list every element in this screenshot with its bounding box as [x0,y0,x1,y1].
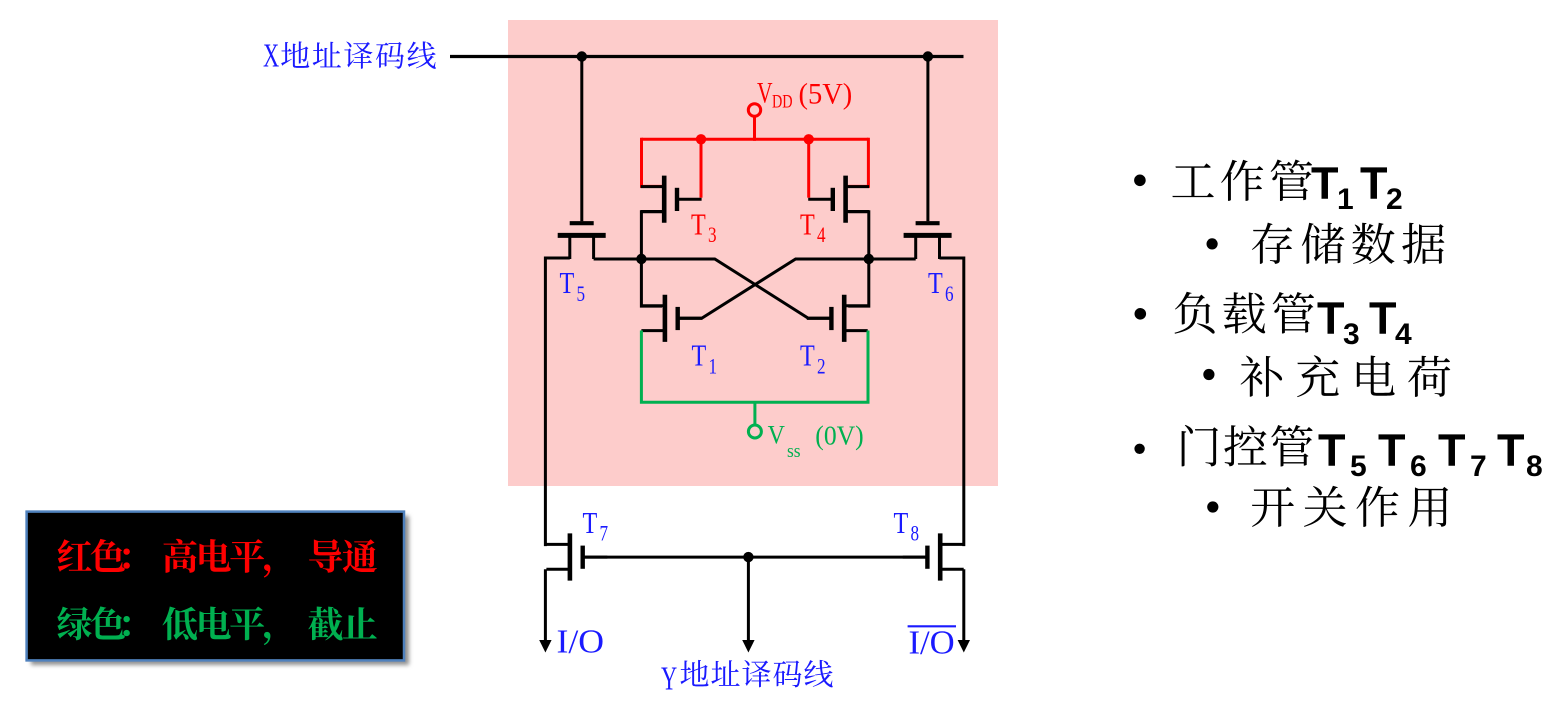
wire node B down to T2 drain [848,259,869,306]
label T2 [800,339,826,379]
wire T5 left lead down to T7 [545,258,569,546]
svg-text:T: T [1311,158,1339,209]
red junction dot above T4 gate [804,134,814,144]
transistor T5 (gate transistor, horizontal MOSFET) [558,223,606,259]
svg-text:6: 6 [945,282,954,307]
svg-text:T: T [583,506,598,541]
svg-text:T: T [894,506,909,541]
svg-text:T: T [691,208,706,243]
bullet dot 3 [1134,444,1144,454]
label I/O [557,622,605,660]
svg-text:I/O: I/O [909,624,955,662]
wire T5 gate drop [580,57,583,222]
svg-text:2: 2 [817,354,826,379]
label T3 [691,208,717,248]
label Y address decode line (Y地址译码线) [661,660,833,698]
label T4 [800,208,826,248]
node junction dot right on X line [923,51,933,61]
wire node A down to T1 drain [641,259,662,306]
svg-text:5: 5 [1350,450,1367,483]
svg-text:X: X [263,37,279,75]
transistor T4 (load MOSFET) [808,176,869,223]
label VDD (5V) [757,76,852,112]
wire VDD stub to rail [753,116,756,141]
wire T7-T8 gate row (Y select) [583,556,927,559]
label X address decode line (X地址译码线) [263,37,436,75]
svg-text:T: T [1360,158,1388,209]
label T6 [928,266,954,306]
wire red drop rail to T3 drain [642,138,663,187]
bullet dot 1 [1134,175,1146,187]
VDD terminal circle [748,104,760,116]
svg-text:5: 5 [577,282,586,307]
transistor T1 (storage MOSFET) [641,295,702,342]
wire VDD red rail [642,138,869,141]
svg-text:T: T [928,266,943,301]
svg-text:8: 8 [1526,450,1543,483]
svg-text:(0V): (0V) [815,421,863,451]
svg-text:3: 3 [708,223,717,248]
wire red drop rail to T4 drain [848,138,868,187]
wire node B up to T4 source [848,212,869,259]
list sub item 1: store data (存储数据) [1252,223,1445,264]
wire T6 right lead down to T8 [940,258,964,546]
svg-text:V: V [768,422,785,450]
svg-text:7: 7 [600,522,609,547]
sub bullet dot 2 [1203,369,1214,380]
list item 1: working transistors T1 T2 (工作管T1 T2) [1172,158,1402,216]
node B junction dot (right storage node) [864,254,874,264]
svg-text:T: T [1318,425,1346,476]
svg-text:T: T [692,339,707,374]
wire Y line down with arrow [742,557,754,652]
wire green VSS stub [753,402,756,426]
wire T7 source down with arrow (I/O) [539,569,551,652]
svg-text:V: V [757,76,773,109]
bullet dot 2 [1135,308,1147,320]
label T1 [692,339,718,379]
wire green VSS loop [641,331,868,403]
svg-text:T: T [1369,293,1397,344]
wire red drop rail to T4 gate [807,139,810,197]
list item 2: load transistors T3 T4 (负载管T3 T4) [1175,292,1412,351]
VSS terminal circle [748,425,761,438]
svg-text:1: 1 [1337,183,1354,216]
svg-text:T: T [1438,425,1466,476]
svg-text:3: 3 [1343,318,1360,351]
svg-text:Y: Y [661,660,677,698]
svg-text:6: 6 [1410,450,1427,483]
wire T5 right lead to node A [594,258,642,261]
wire T6 gate drop [926,57,929,222]
transistor T7 (column gate MOSFET) [546,533,607,580]
list sub item 2: replenish charge (补充电荷) [1241,355,1451,397]
wire red drop rail to T3 gate [700,139,703,197]
svg-text:T: T [800,339,815,374]
legend line 1: red = high level, conducting (红色：高电平，导通) [58,539,377,578]
legend box (black with blue border) [27,512,404,661]
list item 3: gate transistors T5 T6 T7 T8 (门控管T5 T6 T7 T8) [1182,425,1543,483]
label VSS (0V) [768,421,864,461]
node junction dot on Y gate row [743,552,753,562]
wire node A to T2 gate (cross-coupling diagonal) [641,259,830,318]
transistor T3 (load MOSFET) [641,176,702,223]
red junction dot above T3 gate [696,134,706,144]
sub bullet dot 3 [1207,501,1218,512]
svg-text:(5V): (5V) [799,78,853,111]
svg-text:2: 2 [1386,183,1403,216]
label T5 [560,266,586,306]
label T8 [894,506,920,546]
wire T8 source down with arrow (I/O bar) [958,569,970,652]
svg-text:T: T [1317,293,1345,344]
node A junction dot (left storage node) [636,254,646,264]
transistor T8 (column gate MOSFET) [903,533,964,580]
wire X address line horizontal [450,55,964,58]
list sub item 3: switching function (开关作用) [1252,486,1448,527]
node junction dot left on X line [577,51,587,61]
svg-text:T: T [560,266,575,301]
svg-text:ss: ss [787,440,801,461]
svg-text:4: 4 [817,223,826,248]
label T7 [583,506,609,546]
wire node B to T1 gate (cross-coupling diagonal) [680,259,869,318]
sub bullet dot 1 [1207,238,1218,249]
svg-text:T: T [1378,425,1406,476]
legend line 2: green = low level, cut off (绿色：低电平，截止) [57,606,377,645]
transistor T2 (storage MOSFET) [807,295,868,342]
svg-text:7: 7 [1470,450,1487,483]
svg-text:4: 4 [1395,318,1412,351]
svg-text:T: T [800,208,815,243]
label I/O bar with overline [908,624,956,662]
pink highlight rectangle (memory cell region) [508,20,998,486]
svg-text:T: T [1497,425,1525,476]
transistor T6 (gate transistor, horizontal MOSFET) [904,223,952,259]
svg-text:I/O: I/O [557,622,605,660]
legend box shadow [31,516,409,665]
svg-text:1: 1 [709,354,718,379]
svg-text:DD: DD [772,91,793,112]
wire node A up to T3 source [641,212,662,259]
wire T6 left lead to node B [869,258,916,261]
svg-text:8: 8 [911,522,920,547]
